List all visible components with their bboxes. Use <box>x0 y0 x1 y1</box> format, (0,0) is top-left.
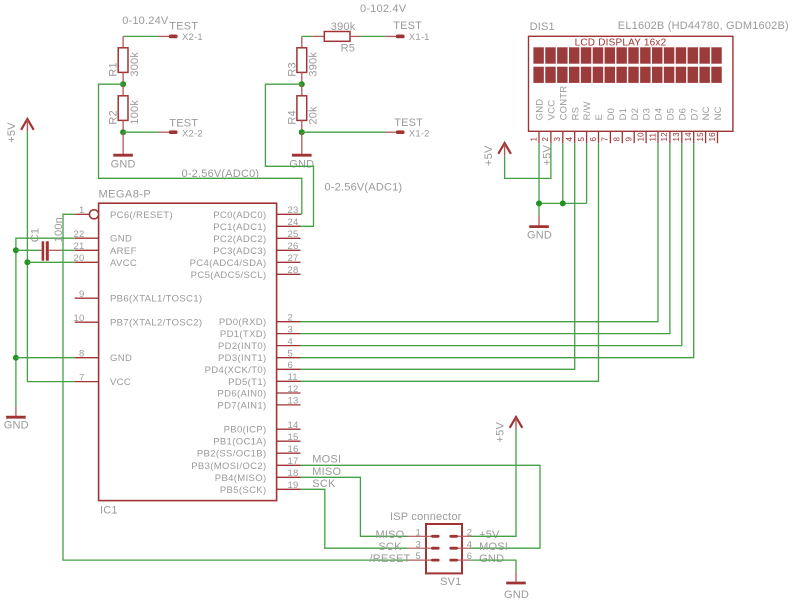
svg-text:5: 5 <box>288 349 293 360</box>
+5V supply symbol (ISP) <box>495 417 523 443</box>
svg-text:D4: D4 <box>654 108 665 121</box>
svg-text:6: 6 <box>589 137 598 142</box>
resistor R1 300k <box>108 48 141 84</box>
ISP pin 3 SCK <box>378 539 439 553</box>
wire GND pin22 to left rail <box>16 238 75 406</box>
pin 2 PD0(RXD) (right) <box>219 313 301 329</box>
svg-text:13: 13 <box>288 396 299 407</box>
wire LCD GND pin1 down <box>538 143 540 215</box>
svg-text:GND: GND <box>479 553 504 565</box>
svg-text:11: 11 <box>288 372 298 383</box>
svg-text:18: 18 <box>288 468 299 479</box>
svg-text:DIS1: DIS1 <box>530 21 555 33</box>
svg-text:100k: 100k <box>129 100 141 125</box>
svg-text:ISP connector: ISP connector <box>390 511 462 523</box>
pin 17 PB3(MOSI/OC2) (right) <box>191 456 300 472</box>
LCD pin 6 E <box>589 114 605 143</box>
pin 23 PC0(ADC0) (right) <box>213 205 300 221</box>
LCD pin 2 VCC <box>541 100 557 143</box>
svg-text:13: 13 <box>672 132 681 142</box>
svg-text:+5V: +5V <box>541 145 553 166</box>
svg-text:12: 12 <box>288 384 299 395</box>
svg-text:22: 22 <box>74 229 85 240</box>
wire AVCC pin20 to +5V rail <box>27 261 74 263</box>
wire +5V to ISP pin2 <box>470 430 516 537</box>
svg-text:20k: 20k <box>308 106 320 125</box>
junction R3/R4 (ADC1 tap) <box>299 81 305 87</box>
svg-text:2: 2 <box>541 137 550 142</box>
ISP pin 6 GND <box>449 551 504 565</box>
svg-text:PD6(AIN0): PD6(AIN0) <box>217 389 266 400</box>
net ADC1 wire to PC1 <box>265 84 313 226</box>
op IC1 MEGA8-P microcontroller body <box>99 189 277 517</box>
svg-text:NC: NC <box>701 106 712 120</box>
ISP pin 2 +5V <box>449 527 500 541</box>
svg-text:R4: R4 <box>286 110 298 124</box>
svg-text:LCD DISPLAY 16x2: LCD DISPLAY 16x2 <box>575 38 667 49</box>
svg-text:3: 3 <box>553 137 562 142</box>
wire LCD D5 to IC <box>301 143 670 333</box>
pin 4 PD2(INT0) (right) <box>218 336 301 352</box>
svg-text:PD2(INT0): PD2(INT0) <box>218 341 267 352</box>
LCD pin 5 R/W <box>577 101 593 143</box>
svg-text:R/W: R/W <box>582 101 593 120</box>
svg-text:23: 23 <box>288 205 299 216</box>
pin 15 PB1(OC1A) (right) <box>213 432 300 448</box>
wire LCD gnd bus <box>539 202 587 204</box>
pin 21 AREF (left) <box>74 241 137 257</box>
svg-text:PD4(XCK/T0): PD4(XCK/T0) <box>205 365 267 376</box>
svg-text:11: 11 <box>648 132 657 141</box>
svg-text:14: 14 <box>288 420 299 431</box>
svg-text:D5: D5 <box>666 108 677 121</box>
wire GND pin8 to left rail <box>16 357 75 359</box>
svg-text:PB3(MOSI/OC2): PB3(MOSI/OC2) <box>191 461 266 472</box>
junction R1/R2 (ADC0 tap) <box>120 81 126 87</box>
LCD pin 7 D0 <box>601 108 617 143</box>
LCD pin 11 D4 <box>648 108 664 143</box>
svg-text:SV1: SV1 <box>440 576 461 588</box>
svg-text:20: 20 <box>74 253 85 264</box>
svg-text:D2: D2 <box>630 108 641 121</box>
svg-text:PB4(MISO): PB4(MISO) <box>215 473 267 484</box>
junction GND/C1 <box>13 247 19 253</box>
svg-text:PD5(T1): PD5(T1) <box>228 377 266 388</box>
wire AREF to C1 <box>16 249 40 251</box>
+5V supply symbol (left) <box>6 119 34 143</box>
svg-text:MISO: MISO <box>312 466 341 478</box>
pin 16 PB2(SS/OC1B) (right) <box>197 444 301 460</box>
pin 19 PB5(SCK) (right) <box>220 480 301 496</box>
ground symbol (ISP) <box>504 572 529 600</box>
svg-text:3: 3 <box>416 539 421 550</box>
svg-text:9: 9 <box>625 137 634 142</box>
test point X2-2 <box>158 118 203 140</box>
svg-text:TEST: TEST <box>394 117 423 129</box>
pin 6 PD4(XCK/T0) (right) <box>205 360 301 376</box>
junction R4/X1-2 <box>299 129 305 135</box>
svg-text:1: 1 <box>79 205 84 216</box>
svg-text:CONTR: CONTR <box>558 86 569 121</box>
ground symbol (divider 2) <box>289 132 314 170</box>
svg-text:16: 16 <box>708 132 717 142</box>
net MOSI wire PB3 to ISP pin4 <box>301 465 541 548</box>
svg-text:X2-2: X2-2 <box>182 129 203 140</box>
pin 1 PC6(/RESET) (left) <box>75 205 173 221</box>
pin 3 PD1(TXD) (right) <box>220 324 301 340</box>
wire +5V rail to AVCC and VCC <box>27 132 74 382</box>
LCD pin 3 CONTR <box>553 86 569 144</box>
svg-text:14: 14 <box>684 132 693 142</box>
LCD pin 16 NC <box>708 106 724 143</box>
resistor R4 20k <box>286 84 319 132</box>
svg-text:5: 5 <box>577 137 586 142</box>
ISP pin 1 MISO <box>376 527 440 541</box>
svg-text:GND: GND <box>111 158 136 170</box>
svg-text:+5V: +5V <box>6 122 18 143</box>
svg-text:PB6(XTAL1/TOSC1): PB6(XTAL1/TOSC1) <box>110 294 202 305</box>
svg-text:+5V: +5V <box>479 529 500 541</box>
svg-text:R3: R3 <box>286 62 298 76</box>
svg-text:AVCC: AVCC <box>110 258 137 269</box>
wire divider2 top <box>302 36 313 47</box>
ground symbol (divider 1) <box>111 132 136 170</box>
LCD pin 13 D6 <box>672 108 688 143</box>
svg-text:X1-1: X1-1 <box>409 32 430 43</box>
pin 13 PD7(AIN1) (right) <box>217 396 300 412</box>
svg-text:390k: 390k <box>308 52 320 77</box>
svg-text:PC0(ADC0): PC0(ADC0) <box>213 210 266 221</box>
svg-text:1: 1 <box>529 137 538 142</box>
wire LCD RS to IC <box>301 143 575 369</box>
svg-text:4: 4 <box>565 137 574 142</box>
test point X1-1 <box>385 20 430 43</box>
svg-text:24: 24 <box>288 217 299 228</box>
svg-text:1: 1 <box>416 527 421 538</box>
pin 14 PB0(ICP) (right) <box>224 420 301 436</box>
svg-text:PC5(ADC5/SCL): PC5(ADC5/SCL) <box>191 270 267 281</box>
svg-text:28: 28 <box>288 265 299 276</box>
ground symbol (left rail) <box>4 406 29 432</box>
LCD pin 8 D1 <box>613 108 629 143</box>
svg-text:+5V: +5V <box>495 422 507 443</box>
svg-text:D7: D7 <box>689 108 700 121</box>
svg-text:0-2.56V(ADC0): 0-2.56V(ADC0) <box>182 168 260 180</box>
wire LCD CONTR pin3 down <box>562 143 564 203</box>
svg-text:GND: GND <box>289 158 314 170</box>
svg-text:GND: GND <box>504 589 529 600</box>
svg-text:PD0(RXD): PD0(RXD) <box>219 317 267 328</box>
wire ISP pin6 to ground <box>470 560 516 571</box>
svg-text:4: 4 <box>288 336 293 347</box>
wire to test point X1-2 <box>302 131 385 133</box>
svg-text:R2: R2 <box>108 110 120 124</box>
svg-text:MOSI: MOSI <box>312 454 341 466</box>
svg-text:D3: D3 <box>642 108 653 121</box>
net ADC0 wire to PC0 <box>99 84 302 214</box>
LCD pin 9 D2 <box>625 108 641 143</box>
svg-text:390k: 390k <box>331 21 356 33</box>
svg-text:0-102.4V: 0-102.4V <box>360 3 407 15</box>
svg-text:X1-2: X1-2 <box>409 129 430 140</box>
svg-text:17: 17 <box>288 456 299 467</box>
junction R2/X2-2 <box>120 129 126 135</box>
LCD pin 10 D3 <box>636 108 652 143</box>
svg-text:MOSI: MOSI <box>479 541 508 553</box>
svg-text:C1: C1 <box>29 228 41 242</box>
svg-text:VCC: VCC <box>110 377 131 388</box>
svg-text:PD1(TXD): PD1(TXD) <box>220 329 267 340</box>
test point X2-1 <box>158 20 203 43</box>
pin 25 PC2(ADC2) (right) <box>213 229 300 245</box>
capacitor C1 100n <box>29 217 65 261</box>
svg-text:6: 6 <box>288 360 293 371</box>
wire PC0 stub to ADC0 net <box>301 213 302 215</box>
svg-text:10: 10 <box>636 132 645 142</box>
svg-text:GND: GND <box>110 353 132 364</box>
junction +5V/AVCC <box>24 259 30 265</box>
svg-text:MISO: MISO <box>376 529 405 541</box>
pin 5 PD3(INT1) (right) <box>218 349 301 365</box>
svg-text:D1: D1 <box>618 108 629 121</box>
resistor R3 390k <box>286 48 319 84</box>
svg-text:RS: RS <box>570 107 581 121</box>
svg-text:19: 19 <box>288 480 299 491</box>
svg-text:/RESET: /RESET <box>370 553 411 565</box>
svg-text:21: 21 <box>74 241 85 252</box>
resistor R2 100k <box>108 84 141 132</box>
wire +5V to LCD VCC pin2 <box>505 143 551 178</box>
svg-text:X2-1: X2-1 <box>182 32 203 43</box>
svg-text:7: 7 <box>601 137 610 142</box>
svg-text:8: 8 <box>613 137 622 142</box>
svg-text:0-10.24V: 0-10.24V <box>122 15 169 27</box>
svg-text:PC1(ADC1): PC1(ADC1) <box>213 222 266 233</box>
net SCK wire PB5 to ISP pin3 <box>301 489 408 548</box>
svg-text:2: 2 <box>288 313 293 324</box>
test point X1-2 <box>385 117 430 140</box>
svg-text:+5V: +5V <box>483 145 495 166</box>
svg-text:D6: D6 <box>677 108 688 121</box>
LCD character cells row 2 <box>533 67 721 83</box>
junction LCD pin3 gnd <box>560 200 566 206</box>
svg-text:300k: 300k <box>129 52 141 77</box>
pin 10 PB7(XTAL2/TOSC2) (left) <box>74 313 203 329</box>
svg-text:27: 27 <box>288 253 299 264</box>
svg-text:9: 9 <box>79 289 84 300</box>
pin 28 PC5(ADC5/SCL) (right) <box>191 265 301 281</box>
svg-text:NC: NC <box>713 106 724 120</box>
svg-text:EL1602B (HD44780, GDM1602B): EL1602B (HD44780, GDM1602B) <box>618 20 789 32</box>
svg-text:PC3(ADC3): PC3(ADC3) <box>213 246 266 257</box>
svg-text:IC1: IC1 <box>100 505 118 517</box>
svg-text:10: 10 <box>74 313 85 324</box>
wire LCD E to IC <box>301 143 599 381</box>
svg-text:PB7(XTAL2/TOSC2): PB7(XTAL2/TOSC2) <box>110 318 202 329</box>
LCD module DIS1 body <box>529 20 789 131</box>
svg-text:D0: D0 <box>606 108 617 121</box>
pin 20 AVCC (left) <box>74 253 138 269</box>
svg-text:R1: R1 <box>108 62 120 76</box>
LCD pin 15 NC <box>696 106 712 143</box>
junction LCD pin1 gnd <box>536 200 542 206</box>
svg-text:TEST: TEST <box>169 20 198 32</box>
svg-text:AREF: AREF <box>110 246 137 257</box>
pin 8 GND (left) <box>75 349 132 365</box>
svg-text:25: 25 <box>288 229 299 240</box>
LCD character cells row 1 <box>533 47 721 63</box>
resistor R5 390k <box>312 21 360 55</box>
wire C1 to AREF pin21 <box>61 249 75 251</box>
pin 24 PC1(ADC1) (right) <box>213 217 300 233</box>
junction GND/pin8 <box>13 355 19 361</box>
svg-text:GND: GND <box>535 99 546 121</box>
connector SV1 ISP body <box>390 511 462 588</box>
wire divider1 top to test point X2-1 <box>123 36 158 47</box>
svg-text:15: 15 <box>696 132 705 142</box>
pin 22 GND (left) <box>74 229 133 245</box>
ISP pin 5 /RESET <box>370 551 440 565</box>
svg-text:GND: GND <box>4 420 29 432</box>
svg-text:PC2(ADC2): PC2(ADC2) <box>213 234 266 245</box>
svg-text:26: 26 <box>288 241 299 252</box>
+5V supply symbol (LCD) <box>483 143 511 166</box>
LCD pin 14 D7 <box>684 108 700 143</box>
wire LCD D4 to IC <box>301 143 659 322</box>
pin 11 PD5(T1) (right) <box>228 372 300 388</box>
pin 7 VCC (left) <box>75 372 131 388</box>
ground symbol (LCD) <box>527 216 552 242</box>
svg-text:PD7(AIN1): PD7(AIN1) <box>217 400 266 411</box>
svg-text:SCK: SCK <box>378 541 402 553</box>
svg-text:PC4(ADC4/SDA): PC4(ADC4/SDA) <box>190 258 267 269</box>
svg-text:0-2.56V(ADC1): 0-2.56V(ADC1) <box>325 181 403 193</box>
svg-text:PB5(SCK): PB5(SCK) <box>220 485 267 496</box>
svg-text:12: 12 <box>660 132 669 142</box>
svg-text:3: 3 <box>288 324 293 335</box>
wire LCD D7 to IC <box>301 143 694 358</box>
wire LCD R/W pin5 down <box>586 143 588 203</box>
svg-text:PB2(SS/OC1B): PB2(SS/OC1B) <box>197 449 267 460</box>
net /RESET wire PC6 to ISP pin5 <box>63 214 408 560</box>
svg-text:4: 4 <box>467 539 472 550</box>
svg-text:PB0(ICP): PB0(ICP) <box>224 425 267 436</box>
svg-text:PD3(INT1): PD3(INT1) <box>218 353 267 364</box>
pin 26 PC3(ADC3) (right) <box>213 241 300 257</box>
svg-text:7: 7 <box>79 372 84 383</box>
wire to test point X2-2 <box>123 131 158 133</box>
wire R5 to test point X1-1 <box>361 35 386 37</box>
svg-text:VCC: VCC <box>547 100 558 121</box>
svg-text:E: E <box>594 114 605 121</box>
svg-text:MEGA8-P: MEGA8-P <box>99 189 152 201</box>
svg-text:GND: GND <box>110 234 132 245</box>
pin 9 PB6(XTAL1/TOSC1) (left) <box>75 289 203 305</box>
pin 27 PC4(ADC4/SDA) (right) <box>190 253 301 269</box>
svg-text:PC6(/RESET): PC6(/RESET) <box>110 210 173 221</box>
LCD pin 1 GND <box>529 99 545 144</box>
svg-text:15: 15 <box>288 432 299 443</box>
wire LCD D6 to IC <box>301 143 682 345</box>
svg-text:8: 8 <box>79 349 84 360</box>
svg-text:5: 5 <box>416 551 421 562</box>
LCD pin 12 D5 <box>660 108 676 143</box>
LCD pin 4 RS <box>565 107 581 143</box>
svg-text:SCK: SCK <box>312 478 336 490</box>
svg-text:16: 16 <box>288 444 299 455</box>
net MISO wire PB4 to ISP pin1 <box>301 477 408 536</box>
svg-text:PB1(OC1A): PB1(OC1A) <box>213 437 266 448</box>
ISP pin 4 MOSI <box>449 539 508 553</box>
pin 18 PB4(MISO) (right) <box>215 468 301 484</box>
svg-text:R5: R5 <box>341 42 355 54</box>
svg-text:GND: GND <box>527 229 552 241</box>
svg-text:TEST: TEST <box>393 20 422 32</box>
pin 12 PD6(AIN0) (right) <box>217 384 300 400</box>
